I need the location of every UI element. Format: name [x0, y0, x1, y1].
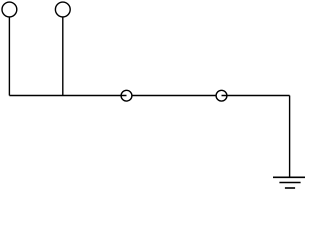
ground (earth symbol, three bars) — [273, 177, 305, 188]
terminal T1 (top-left circle) — [2, 2, 17, 17]
wire bus right segment — [222, 95, 290, 97]
connector pin J1 (left small circle on bus) — [121, 90, 132, 101]
wire horizontal bus left segment — [9, 95, 126, 97]
connector pin J2 (right small circle on bus) — [216, 90, 227, 101]
wire bus middle segment between J1 and J2 — [132, 95, 216, 97]
wire T2 stub down to bus — [62, 17, 64, 96]
wire vertical down to ground — [289, 96, 291, 178]
terminal T2 (second top circle) — [55, 2, 70, 17]
wire T1 stub down to bus — [8, 17, 10, 96]
